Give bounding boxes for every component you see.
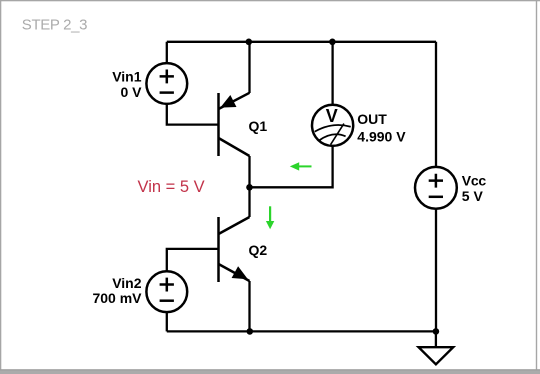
Q1 emitter arrow: [222, 97, 235, 107]
wire Q2 emitter vertical: [248, 281, 250, 331]
junction dot top rail right: [329, 39, 336, 46]
junction dot bottom rail right: [433, 328, 440, 335]
wire Vin1 bottom to Q1 base: [167, 104, 219, 125]
svg-text:V: V: [326, 106, 338, 126]
svg-text:Vin1: Vin1: [112, 68, 142, 84]
svg-text:OUT: OUT: [357, 111, 387, 127]
transistor Q2 (NPN): [219, 217, 250, 282]
wire Vin1 top: [166, 42, 168, 64]
ground: [419, 347, 454, 364]
Q2 emitter arrow: [233, 268, 246, 279]
wire Q1 emitter vertical: [248, 42, 250, 93]
svg-text:4.990 V: 4.990 V: [357, 128, 406, 144]
frame left border: [0, 0, 1, 371]
ground stem wire: [435, 331, 437, 347]
svg-text:Vcc: Vcc: [462, 172, 487, 188]
voltmeter OUT: [312, 105, 353, 146]
wire right rail down to Vcc: [435, 42, 437, 167]
wire Q1 collector to node: [248, 156, 250, 187]
voltage source Vcc: [415, 167, 457, 209]
node OUT junction dot: [246, 184, 253, 191]
wire Vcc bottom: [435, 209, 437, 331]
svg-text:STEP 2_3: STEP 2_3: [22, 16, 87, 33]
wire bottom rail: [167, 330, 436, 332]
svg-text:Q1: Q1: [249, 118, 268, 134]
svg-text:5 V: 5 V: [462, 188, 484, 204]
wire node to Q2 collector: [248, 187, 250, 217]
svg-text:Q2: Q2: [249, 242, 268, 258]
frame top border: [0, 0, 540, 1]
wire Vin2 bottom: [166, 313, 168, 332]
green arrow left (current into node): [290, 162, 312, 170]
svg-text:0 V: 0 V: [120, 84, 142, 100]
wire voltmeter top: [331, 42, 333, 105]
junction dot bottom rail left: [247, 328, 254, 335]
frame bottom bar: [0, 369, 540, 374]
svg-text:Vin = 5 V: Vin = 5 V: [138, 178, 205, 196]
wire top rail: [167, 41, 436, 43]
green arrow down (current into Q2): [266, 206, 274, 229]
svg-text:700 mV: 700 mV: [92, 290, 142, 306]
svg-text:Vin2: Vin2: [112, 275, 142, 291]
junction dot top rail left: [246, 39, 253, 46]
frame right border: [536, 0, 537, 371]
wire node to voltmeter bottom: [250, 146, 333, 187]
transistor Q1 (PNP): [219, 93, 250, 156]
wire Vin2 top to Q2 base: [167, 249, 219, 271]
voltage source Vin2: [146, 271, 187, 312]
voltage source Vin1: [146, 63, 187, 104]
